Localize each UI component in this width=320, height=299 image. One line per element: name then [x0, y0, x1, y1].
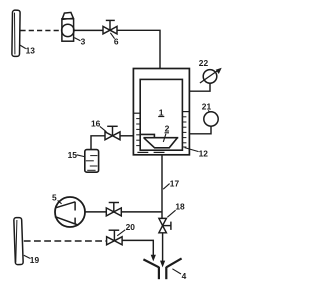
svg-text:17: 17: [170, 178, 180, 188]
vessel outer wall: [133, 69, 189, 155]
label 5: [52, 192, 62, 203]
label 17: [163, 178, 179, 189]
wire: valve16 to tank15: [91, 136, 105, 150]
boat 2 (crucible): [141, 134, 179, 147]
wire: gauge21 to vessel: [189, 126, 211, 134]
label 1 (chamber): [158, 107, 164, 117]
svg-text:6: 6: [114, 37, 119, 47]
svg-text:5: 5: [52, 192, 57, 202]
valve 20: [107, 230, 123, 245]
svg-text:22: 22: [199, 58, 209, 68]
wire: dashed line plate13 to pump3: [20, 30, 61, 32]
label 15: [68, 150, 85, 160]
label 2: [163, 124, 169, 142]
wire: dashed line plate19 to valve20: [24, 240, 107, 242]
svg-text:13: 13: [26, 46, 36, 56]
label 4: [172, 269, 186, 281]
svg-text:21: 21: [202, 102, 212, 112]
wire: valve20 to nozzle + arrow: [122, 240, 156, 261]
label 20: [117, 222, 135, 236]
svg-text:15: 15: [68, 150, 78, 160]
svg-text:4: 4: [182, 271, 187, 281]
svg-text:3: 3: [81, 37, 86, 47]
node: liquid level left gap: [134, 113, 141, 145]
wire: valve16 to vessel: [120, 135, 134, 137]
wire 17: vessel bottom outlet: [161, 155, 163, 218]
label 6: [110, 33, 119, 47]
node: liquid level right gap: [182, 112, 189, 147]
gauge 21: [204, 112, 218, 126]
tank 15: [85, 150, 99, 173]
svg-text:1: 1: [159, 107, 164, 117]
label 12: [185, 148, 209, 159]
plate 13: [12, 10, 20, 56]
label 21: [202, 102, 212, 113]
valve 6: [103, 20, 117, 34]
valve 16: [105, 126, 120, 140]
wire: valve18 down to nozzle + arrow: [160, 233, 165, 268]
node: liquid dashes in bottom gap: [137, 151, 164, 153]
wire: pump5 to valve: [85, 211, 106, 213]
wire: pump3 to valve6: [74, 29, 103, 31]
label 19: [24, 255, 40, 265]
valve (pump line): [106, 203, 121, 216]
pump 5: [55, 197, 85, 227]
wire: valve6 to vessel top: [117, 30, 160, 68]
svg-text:16: 16: [91, 119, 101, 129]
svg-text:12: 12: [199, 148, 209, 158]
label 16: [91, 119, 106, 132]
label 3: [74, 37, 85, 47]
label 18: [167, 201, 185, 217]
wire: gauge22 to vessel: [189, 83, 210, 91]
label 13: [20, 45, 35, 56]
valve 18: [159, 218, 171, 232]
svg-text:19: 19: [30, 255, 40, 265]
wire: valve to line17 junction: [121, 211, 162, 213]
gauge 22: [200, 68, 222, 83]
svg-text:18: 18: [175, 201, 185, 211]
svg-text:2: 2: [165, 124, 170, 134]
vessel inner wall (chamber 1): [140, 79, 182, 150]
nozzle 4 (funnel): [143, 258, 181, 279]
plate 19: [14, 217, 23, 264]
svg-text:20: 20: [126, 222, 136, 232]
pump 3: [62, 12, 74, 41]
